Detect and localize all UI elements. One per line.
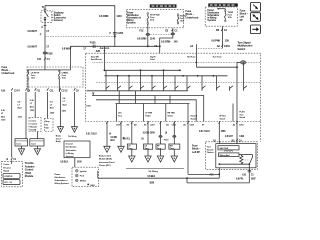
svg-text:1450: 1450: [77, 161, 83, 164]
svg-text:SP203: SP203: [80, 180, 87, 182]
wire to trailer ground: [73, 92, 75, 127]
turn signal multifunction switch (dashed body): [86, 53, 261, 121]
svg-text:Switch: Switch: [191, 117, 198, 120]
svg-text:P130: P130: [47, 51, 53, 55]
dotted connector link P100: [150, 33, 171, 35]
svg-text:Trlr Wrng: Trlr Wrng: [68, 135, 77, 138]
fuse block underhood (middle section): [126, 10, 183, 28]
ground G1 body: [56, 127, 64, 144]
svg-text:10 A: 10 A: [180, 19, 185, 22]
svg-text:0.8 PPL: 0.8 PPL: [236, 179, 244, 181]
svg-text:0.8 BLK: 0.8 BLK: [60, 162, 68, 164]
svg-text:A: A: [41, 25, 43, 29]
wire B+ feed top (0.8 ORN 1140): [45, 6, 115, 47]
svg-text:F12: F12: [139, 29, 144, 33]
label power distribution (bottom left): [55, 173, 70, 185]
contact block labels: [118, 112, 246, 121]
label TAC module: [25, 161, 35, 178]
ground under LF bulb: [129, 149, 135, 162]
bus 0.8 PPL lower: [186, 177, 249, 183]
turn lamp feed wires: [123, 122, 176, 145]
svg-text:I/P Dim: I/P Dim: [220, 116, 227, 118]
svg-text:Cluster (IPC): Cluster (IPC): [99, 164, 111, 167]
svg-text:Systems: Systems: [127, 21, 137, 24]
wire 0.38 LT BLU 1029: [1, 92, 12, 157]
bus wire D with terminal: [92, 93, 204, 122]
pin B3/C1 wire 0.8 PNK 139: [211, 26, 230, 48]
svg-text:(CCM): (CCM): [30, 130, 36, 132]
svg-text:Instrument Panel: Instrument Panel: [99, 161, 115, 164]
svg-text:C1 E3: C1 E3: [61, 90, 68, 92]
svg-text:I/P: I/P: [240, 18, 243, 22]
in-line connector C202: [110, 31, 124, 37]
svg-text:Trlr Wiring: Trlr Wiring: [148, 170, 158, 173]
svg-text:Module: Module: [25, 174, 34, 178]
svg-text:0.8 PNK: 0.8 PNK: [211, 39, 220, 43]
svg-text:12V – 5V: 12V – 5V: [4, 182, 13, 184]
bus wire C: [87, 90, 189, 92]
pin A30 drop: [96, 46, 106, 70]
bus wire E: [96, 100, 196, 122]
wire 0.8 LT BLU 14 to BCM ground: [86, 122, 112, 153]
svg-text:139: 139: [225, 39, 230, 43]
bulb RF turn: [156, 144, 165, 150]
svg-text:C202: C202: [117, 31, 123, 35]
dotted rail 2: [96, 81, 261, 83]
ground under RR bulb: [171, 149, 177, 162]
dotted rail: [93, 61, 261, 63]
connector pin row C201: [106, 121, 238, 124]
svg-text:BLU: BLU: [111, 140, 116, 142]
svg-text:140: 140: [174, 39, 179, 43]
bulb LR turn: [144, 144, 153, 150]
svg-text:1850: 1850: [149, 182, 155, 184]
fuse block underhood title bar: [150, 4, 177, 7]
svg-text:Wiring Systems: Wiring Systems: [55, 182, 70, 185]
wire E7 long drop: [188, 122, 220, 176]
label 0.8 ORN 1140 (top feed): [99, 14, 122, 18]
wire stoplamp sw to fuse block 0.8 WHT 17: [44, 21, 46, 70]
ground under box1: [18, 146, 24, 155]
connector box 1: [15, 139, 28, 146]
trailer wiring bracket: [126, 168, 184, 172]
svg-text:0.8 YEL: 0.8 YEL: [123, 138, 131, 140]
wire 0.8 GRY 1496: [225, 122, 245, 146]
pin F and dotted link to C202: [40, 32, 115, 36]
ground under LR bulb: [145, 149, 151, 162]
svg-text:Body Control: Body Control: [99, 154, 112, 157]
connector C11 / C1: [37, 57, 50, 61]
wire 0.38 LT BLU 1320 to CCM: [30, 92, 35, 118]
svg-text:Cntrl: Cntrl: [150, 58, 155, 61]
pin row under left fuse block: [1, 88, 79, 92]
svg-text:Schematics in: Schematics in: [55, 179, 69, 182]
svg-text:COMP ID: COMP ID: [4, 176, 13, 178]
svg-text:Ignition: Ignition: [80, 170, 88, 173]
svg-text:in Wiring: in Wiring: [66, 152, 75, 155]
svg-text:Hazard: Hazard: [207, 148, 214, 151]
svg-text:1508: 1508: [221, 131, 227, 133]
svg-text:Stop SW: Stop SW: [91, 56, 99, 59]
svg-text:1687: 1687: [251, 179, 257, 181]
svg-text:1496: 1496: [239, 135, 245, 138]
stoplamp voltage box: [44, 119, 53, 132]
label BCM IPC: [99, 154, 115, 167]
svg-text:Underhood: Underhood: [186, 15, 199, 19]
svg-text:Control: Control: [30, 123, 37, 126]
svg-text:LF TRN: LF TRN: [145, 113, 152, 115]
svg-text:0.8 WHT: 0.8 WHT: [62, 47, 72, 51]
svg-text:Module (BCM): Module (BCM): [99, 159, 112, 161]
svg-text:0.8 BLK: 0.8 BLK: [147, 176, 155, 178]
svg-text:Distribution: Distribution: [55, 176, 66, 179]
internal verticals to contact block: [119, 91, 170, 104]
ground bus 0.8 BLK 1850: [98, 171, 220, 184]
ground under RF bulb: [157, 149, 163, 162]
switch wipers: [106, 86, 247, 89]
svg-text:1140: 1140: [150, 36, 156, 40]
flasher internals: [218, 155, 252, 166]
svg-text:HAZ 15W: HAZ 15W: [220, 147, 229, 150]
svg-text:Left I/P: Left I/P: [192, 150, 200, 154]
label 0.8 WHT 17: [27, 29, 49, 33]
svg-text:Grnd –: Grnd –: [56, 137, 63, 140]
svg-text:Cruise: Cruise: [30, 120, 37, 123]
svg-text:Systems: Systems: [66, 155, 75, 158]
toolbar button 1: [251, 3, 261, 12]
svg-text:Turn Fuse: Turn Fuse: [213, 55, 223, 58]
svg-text:Wiring Brd: Wiring Brd: [220, 154, 231, 157]
svg-text:0.8 DK: 0.8 DK: [111, 137, 118, 139]
wire 0.8 LT BLU to conn box: [18, 92, 27, 139]
svg-text:Underhood: Underhood: [2, 71, 15, 75]
fuse block underhood (left section): [27, 67, 83, 87]
svg-text:Sw: Sw: [45, 124, 48, 126]
bulb RR turn: [169, 144, 180, 150]
svg-text:Hzd Fuse: Hzd Fuse: [187, 56, 196, 58]
svg-text:FLSH: FLSH: [239, 112, 245, 114]
svg-text:C201: C201: [224, 44, 230, 48]
bulb LF turn: [127, 144, 136, 150]
svg-text:harness): harness): [54, 19, 63, 22]
label turn signal multifunction switch: [238, 40, 253, 50]
connector box 2: [30, 132, 44, 147]
fuse HAZ LP 10A: [177, 14, 187, 24]
svg-text:10 A: 10 A: [31, 77, 36, 80]
svg-text:Module: Module: [30, 127, 38, 129]
fuse LP-STOP 10A: [27, 70, 40, 92]
svg-text:0.8 DK GRN: 0.8 DK GRN: [143, 133, 155, 135]
svg-text:P130: P130: [90, 41, 96, 45]
svg-text:Distribution: Distribution: [66, 146, 77, 149]
svg-text:Swtch: Swtch: [239, 116, 245, 119]
svg-text:15 A: 15 A: [228, 16, 233, 19]
svg-text:Swtch: Swtch: [220, 117, 226, 120]
svg-text:10 A: 10 A: [62, 77, 67, 80]
splice grommet P130: [43, 51, 53, 55]
contact block: [116, 104, 234, 122]
svg-text:BLU: BLU: [50, 108, 55, 110]
svg-text:Power: Power: [55, 173, 61, 176]
svg-text:0.8 ORN: 0.8 ORN: [99, 14, 109, 18]
svg-text:C2 F4: C2 F4: [14, 89, 21, 92]
svg-text:Trailer: Trailer: [167, 114, 173, 117]
svg-text:C11: C11: [37, 57, 42, 61]
svg-text:0.8 LT BLU: 0.8 LT BLU: [199, 131, 210, 133]
svg-text:BLU: BLU: [18, 108, 23, 110]
label fuse block underhood: [186, 9, 199, 19]
wire to body ground: [61, 92, 68, 127]
svg-text:1140: 1140: [116, 14, 122, 18]
pin A4 drop: [190, 44, 223, 53]
main feed bus y46.3: [70, 46, 159, 70]
label 0.8 WHT 17 second: [27, 45, 49, 49]
svg-text:0.8 WHT: 0.8 WHT: [27, 29, 37, 33]
svg-text:Schematics: Schematics: [66, 149, 78, 152]
svg-text:BLU: BLU: [63, 104, 68, 106]
svg-text:Flasher: Flasher: [207, 151, 214, 154]
svg-text:Sens/Resch: Sens/Resch: [91, 59, 103, 61]
wire 0.8 BLK 1450: [60, 158, 82, 168]
wire 0.8 LT BLU 1508: [199, 122, 226, 179]
connector B/C1 into TAC: [7, 158, 17, 164]
bus wire A: [104, 69, 181, 71]
turn feed path: [196, 53, 238, 68]
svg-text:0.8 ORN: 0.8 ORN: [161, 39, 171, 43]
B+ ignition park terminals: [72, 167, 99, 187]
ground under box2: [34, 146, 40, 155]
pin A: [41, 25, 46, 29]
svg-text:0.8 ORN: 0.8 ORN: [137, 36, 147, 40]
svg-text:20 A: 20 A: [150, 18, 155, 21]
dashed edge link: [260, 122, 262, 142]
stoplamp switch label: [52, 11, 67, 22]
svg-text:Systems: Systems: [207, 19, 217, 22]
svg-text:0.8 GRY: 0.8 GRY: [225, 136, 234, 138]
thermal strip zigzag: [224, 150, 233, 151]
label turn hazard flasher: [207, 146, 214, 155]
svg-text:Ground: Ground: [66, 142, 74, 145]
bus wire B: [104, 75, 227, 77]
label fuse block left IP (top right): [240, 8, 249, 22]
svg-text:B: B: [42, 5, 44, 9]
svg-text:BLU: BLU: [1, 116, 6, 118]
svg-text:Conn: Conn: [16, 144, 22, 146]
svg-text:Resume: Resume: [3, 167, 11, 169]
flasher label box 2: [219, 153, 240, 157]
pin F12 wire 0.8 ORN 1140: [137, 24, 156, 47]
flasher label box 1: [218, 146, 239, 150]
ground distribution callout: [64, 141, 90, 158]
cruise control module CCM: [29, 118, 41, 132]
in-line connector P130 (aux): [62, 41, 110, 51]
toolbar button 2: [251, 13, 261, 22]
label fuse block left IP (bottom): [192, 143, 201, 153]
svg-text:Hazard: Hazard: [191, 115, 198, 118]
flasher body: [216, 144, 256, 168]
toolbar button 3: [251, 25, 261, 34]
hazard knob connector: [237, 61, 246, 65]
fuse TURN 15A: [225, 9, 234, 22]
fuse block left IP (dashed): [206, 142, 258, 170]
svg-text:Signal: Signal: [3, 171, 9, 173]
svg-text:0.8 WHT: 0.8 WHT: [27, 45, 37, 49]
svg-text:Sig Flr: Sig Flr: [150, 56, 156, 59]
fuse block title bar 2: [208, 3, 238, 6]
stoplamp switch S1: [41, 11, 52, 22]
svg-text:A30: A30: [96, 49, 101, 53]
svg-text:RR TRN: RR TRN: [167, 113, 175, 115]
svg-text:Conn: Conn: [31, 144, 37, 146]
internal labels: [91, 55, 223, 61]
wire to stoplamp voltage box: [48, 92, 56, 119]
fuse STOP HZD 20A: [147, 13, 160, 25]
svg-text:BLU: BLU: [30, 106, 35, 108]
svg-text:Cruise: Cruise: [3, 163, 10, 166]
internal bus: [28, 69, 70, 71]
label fuse block underhood (left): [2, 65, 15, 75]
wiper feed stubs: [106, 62, 244, 90]
svg-text:Volt: Volt: [45, 127, 49, 130]
hazard feed wire: [236, 62, 238, 121]
wire 0.8 DK BLU 10 to IPC ground: [111, 122, 126, 153]
flasher resistor: [240, 155, 243, 165]
pin A10/C1 wire 0.8 PPL 1687: [236, 164, 256, 183]
svg-text:Switch: Switch: [238, 47, 246, 51]
fuse CHMSL 10A: [59, 70, 70, 92]
ground G2 trailer: [68, 127, 77, 138]
svg-text:0.8 LT BLU: 0.8 LT BLU: [86, 133, 97, 135]
pin E2/C1 wire 0.8 ORN 140: [154, 28, 178, 53]
fuse block underhood (right section): [205, 7, 237, 26]
TAC module box: [2, 161, 23, 187]
svg-text:Trailer: Trailer: [145, 114, 151, 117]
